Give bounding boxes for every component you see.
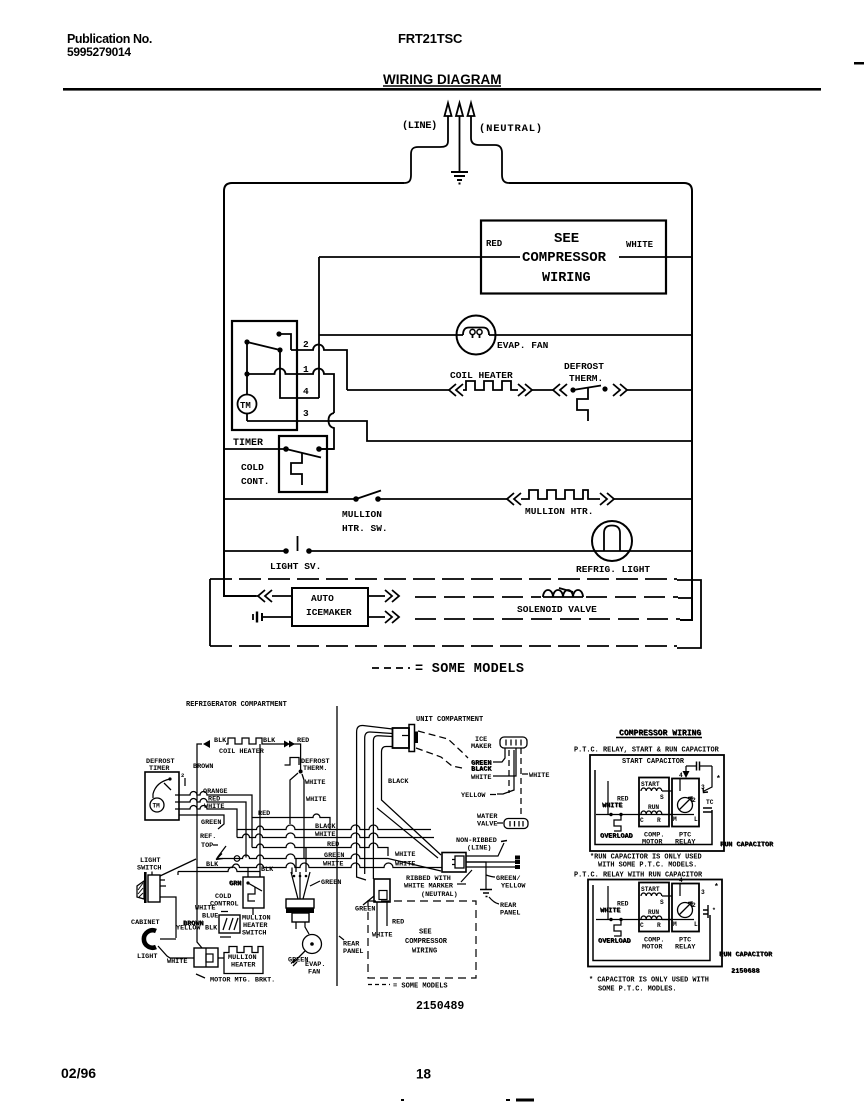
svg-text:WHITE: WHITE [323, 861, 343, 869]
mullion connector block [219, 915, 240, 933]
evap fan shroud funnel [291, 872, 310, 899]
svg-text:MAKER: MAKER [471, 743, 492, 751]
coil heater arrows [203, 740, 210, 748]
svg-text:WHITE: WHITE [471, 774, 491, 782]
svg-text:BLK: BLK [263, 737, 276, 745]
rear panel divider line [336, 706, 338, 986]
svg-text:2150688: 2150688 [732, 968, 761, 976]
svg-text:YELLOW: YELLOW [176, 925, 201, 933]
wires into funnel [292, 848, 306, 875]
svg-text:L: L [694, 816, 698, 823]
svg-text:5995279014: 5995279014 [67, 45, 131, 59]
svg-text:START: START [641, 886, 660, 893]
dashed return white [508, 750, 510, 793]
dashed harness to ice maker [418, 731, 468, 758]
svg-text:COMPRESSOR: COMPRESSOR [405, 938, 448, 946]
auto icemaker box [292, 588, 368, 626]
svg-text:TOP: TOP [201, 842, 213, 850]
mullion heater switch contacts [353, 496, 359, 502]
yellow wire [497, 750, 514, 794]
svg-text:Publication No.: Publication No. [67, 32, 152, 46]
svg-text:L: L [694, 921, 698, 928]
svg-text:= SOME MODELS: = SOME MODELS [393, 983, 448, 991]
compressor box: SEE COMPRESSOR WIRING [481, 221, 666, 294]
svg-text:SOLENOID VALVE: SOLENOID VALVE [517, 604, 597, 615]
coil heater right arrows [284, 741, 295, 748]
svg-text:RELAY: RELAY [675, 839, 696, 847]
svg-text:COLD: COLD [241, 462, 264, 473]
svg-text:3: 3 [303, 408, 309, 419]
svg-text:*: * [712, 907, 716, 914]
bus wire BLACK [237, 825, 431, 830]
svg-text:4: 4 [679, 877, 683, 884]
timer output wire white [179, 806, 237, 838]
bus wire RED [252, 843, 388, 856]
plug prong ground [456, 103, 463, 171]
timer box [232, 321, 297, 430]
svg-text:WIRING: WIRING [542, 271, 591, 286]
compressor leads [363, 896, 387, 938]
wire to neutral side [614, 498, 692, 500]
some-models arrows after therm [613, 384, 627, 396]
svg-text:MOTOR: MOTOR [642, 839, 663, 847]
cabinet outline box (main enclosure) [224, 183, 404, 596]
svg-text:C: C [640, 922, 644, 929]
some-models arrows [600, 493, 614, 505]
svg-text:S: S [660, 899, 664, 906]
ptc relay start cap box [590, 755, 724, 851]
icemaker fill connector [252, 614, 254, 620]
wire light row [224, 550, 286, 552]
mullion heater element [521, 490, 600, 499]
svg-text:YELLOW: YELLOW [461, 792, 486, 800]
inner margin [595, 770, 712, 845]
svg-text:WHITE: WHITE [204, 803, 224, 811]
svg-text:HTR. SW.: HTR. SW. [342, 523, 388, 534]
cold control box [279, 436, 327, 492]
svg-text:WHITE: WHITE [195, 905, 215, 913]
wire lamp white lead [158, 946, 194, 958]
see compressor wiring dashed box [368, 901, 476, 978]
svg-text:BLK: BLK [205, 925, 218, 933]
svg-text:CONT.: CONT. [241, 476, 270, 487]
svg-text:GRN: GRN [230, 880, 242, 888]
timer contact 2 (fixed) [276, 331, 281, 336]
svg-text:TIMER: TIMER [233, 438, 263, 449]
svg-text:OVERLOAD: OVERLOAD [601, 833, 634, 841]
unit compartment connector [393, 728, 410, 748]
wire hop over TM lead [319, 413, 334, 449]
evap fan motor [457, 316, 496, 355]
svg-text:COIL HEATER: COIL HEATER [450, 370, 513, 381]
wire switch top to white bus [177, 872, 179, 876]
icemaker row A out arrows [368, 590, 399, 602]
wire line side to cold control [224, 448, 286, 450]
wire to coil heater [347, 389, 449, 391]
legend some models (lower) [368, 984, 390, 986]
wire white 2 from therm [302, 774, 304, 859]
some-models arrows left of coil heater [449, 384, 463, 396]
svg-text:RUN: RUN [648, 909, 659, 916]
svg-text:RUN: RUN [648, 804, 659, 811]
wire row4: moving contact down to red feed [280, 350, 319, 398]
svg-text:FAN: FAN [308, 969, 320, 977]
some-models arrows [553, 384, 567, 396]
svg-text:VALVE: VALVE [477, 821, 497, 829]
svg-text:WHITE: WHITE [305, 779, 325, 787]
some-models arrows right of coil heater [518, 384, 532, 396]
svg-text:EVAP. FAN: EVAP. FAN [497, 340, 549, 351]
wire line side to icemaker [224, 595, 258, 597]
power cord connector [442, 853, 466, 873]
svg-text:WHITE: WHITE [315, 831, 335, 839]
svg-text:(LINE): (LINE) [467, 845, 491, 853]
svg-text:BLUE: BLUE [202, 913, 218, 921]
svg-text:P.T.C. RELAY WITH RUN CAPACITO: P.T.C. RELAY WITH RUN CAPACITOR [574, 872, 703, 880]
cap right lead [704, 766, 712, 791]
svg-text:SEE: SEE [554, 231, 579, 247]
svg-text:02/96: 02/96 [61, 1065, 96, 1081]
mullion heater element box [224, 947, 263, 974]
wire red to compressor box [319, 256, 520, 258]
wire evap fan row [319, 334, 463, 336]
dashed yellow drop [520, 748, 522, 818]
svg-text:WHITE: WHITE [372, 932, 392, 940]
wire to refrig light [309, 550, 692, 552]
wire: line prong S-curve into cabinet box top [404, 141, 448, 183]
svg-text:SOME P.T.C. MODLES.: SOME P.T.C. MODLES. [598, 986, 677, 994]
mullion heater plug [194, 948, 218, 967]
svg-text:R: R [657, 922, 661, 929]
ground symbol rear panel [480, 890, 492, 897]
svg-text:WHITE: WHITE [395, 861, 415, 869]
timer moving contact [277, 347, 282, 352]
wire BROWN vertical [197, 744, 202, 870]
defrost therm capillary [577, 388, 588, 421]
ice maker connector [500, 737, 527, 748]
svg-text:WHITE: WHITE [306, 796, 326, 804]
svg-text:RELAY: RELAY [675, 944, 696, 952]
svg-text:2: 2 [692, 797, 696, 804]
light switch contacts [283, 548, 289, 554]
svg-text:DEFROST: DEFROST [564, 361, 604, 372]
bus wire BLK lower [178, 867, 260, 872]
dashed wire solenoid to neutral [586, 596, 678, 598]
white vertical [607, 781, 609, 815]
svg-text:GREEN: GREEN [321, 879, 341, 887]
svg-text:WHITE MARKER: WHITE MARKER [404, 883, 454, 891]
black drop from connector [382, 747, 442, 856]
wire cold control bottom [252, 908, 254, 915]
timer arm pivot [244, 339, 249, 344]
run capacitor stub [703, 808, 712, 812]
wire to defrost therm [532, 389, 553, 391]
icemaker row B out arrows [368, 611, 399, 623]
coil heater element (lower) [226, 738, 276, 744]
svg-text:BLACK: BLACK [388, 778, 409, 786]
cold control contacts [283, 446, 289, 452]
wire plug to heater [218, 957, 224, 959]
light switch pins [160, 880, 176, 938]
svg-text:BLK: BLK [261, 866, 274, 874]
plug prong NEUTRAL [468, 103, 475, 138]
svg-text:LIGHT: LIGHT [137, 953, 157, 961]
svg-text:COMPRESSOR: COMPRESSOR [522, 250, 607, 266]
svg-text:RED: RED [392, 919, 404, 927]
svg-text:BROWN: BROWN [193, 763, 213, 771]
wire therm to neutral side [627, 389, 692, 391]
svg-text:4: 4 [679, 772, 683, 779]
wire red branch to black bus [252, 814, 330, 829]
refrig light bulb [592, 521, 632, 561]
ptc relay run cap box [588, 880, 722, 967]
wire blk drop to cold control [259, 744, 261, 877]
svg-text:RED: RED [486, 239, 503, 249]
TM lead down [246, 414, 248, 422]
svg-text:THERM.: THERM. [303, 765, 327, 773]
svg-text:3: 3 [701, 784, 705, 791]
svg-text:START CAPACITOR: START CAPACITOR [622, 758, 685, 766]
svg-text:WHITE: WHITE [601, 907, 621, 915]
svg-text:LIGHT SV.: LIGHT SV. [270, 561, 321, 572]
svg-text:PANEL: PANEL [343, 948, 363, 956]
svg-text:FRT21TSC: FRT21TSC [398, 31, 463, 46]
svg-text:WIRING: WIRING [412, 948, 437, 956]
ground symbol [451, 171, 468, 173]
svg-text:WHITE: WHITE [626, 240, 654, 250]
svg-text:S: S [660, 794, 664, 801]
dashed wire row B to neutral foot [415, 618, 680, 620]
cord line wire [466, 843, 504, 856]
wire brown drop to heater plug [197, 870, 202, 949]
svg-text:START: START [641, 781, 660, 788]
cord wires with terminals [466, 861, 515, 863]
defrost timer cam arm [168, 777, 171, 780]
svg-text:RUN CAPACITOR: RUN CAPACITOR [721, 841, 775, 849]
svg-text:GREEN: GREEN [201, 819, 221, 827]
svg-text:M: M [673, 921, 677, 928]
header rule [63, 88, 821, 91]
bottom scan marks [401, 1099, 404, 1101]
solenoid valve coil [543, 590, 583, 597]
svg-text:2: 2 [181, 772, 184, 779]
svg-text:WHITE: WHITE [529, 772, 549, 780]
timer pivot to motor wire [246, 342, 248, 395]
svg-text:2150489: 2150489 [416, 1000, 464, 1013]
svg-text:(LINE): (LINE) [402, 120, 437, 132]
ptc relay box [672, 779, 699, 827]
wires cold control top [248, 868, 260, 878]
start winding jumper [662, 779, 680, 815]
timer pin ticks [175, 795, 179, 809]
svg-text:SEE: SEE [419, 929, 432, 937]
svg-text:OVERLOAD: OVERLOAD [599, 938, 632, 946]
defrost timer motor TM [150, 798, 164, 812]
svg-text:3: 3 [701, 889, 705, 896]
wire row3: TM to neutral side [247, 421, 692, 441]
motor leads [296, 922, 309, 934]
some-models arrows [507, 493, 521, 505]
svg-text:WHITE: WHITE [603, 802, 623, 810]
legend dashed sample [372, 667, 410, 669]
comp motor box [639, 778, 669, 827]
svg-text:THERM.: THERM. [569, 373, 603, 384]
run capacitor symbol 2 [703, 905, 708, 918]
green yellow ground wire [466, 862, 486, 889]
svg-text:C: C [640, 817, 644, 824]
svg-text:WITH SOME P.T.C. MODELS.: WITH SOME P.T.C. MODELS. [598, 862, 697, 870]
svg-text:TM: TM [240, 401, 251, 411]
timer output wire red [179, 799, 246, 858]
svg-text:GREEN: GREEN [324, 852, 344, 860]
neutral leader diagonal [461, 870, 472, 882]
svg-text:RED: RED [258, 810, 270, 818]
timer green wire [179, 815, 224, 829]
inline connector bubble [234, 856, 240, 862]
bus wire GREEN [218, 854, 441, 871]
coil heater element [463, 381, 518, 390]
svg-text:PANEL: PANEL [500, 910, 520, 918]
svg-text:WHITE: WHITE [167, 958, 187, 966]
svg-text:REFRIGERATOR COMPARTMENT: REFRIGERATOR COMPARTMENT [186, 701, 287, 709]
bus wire WHITE [237, 833, 434, 838]
svg-text:GREEN: GREEN [355, 906, 375, 914]
svg-text:TC: TC [706, 799, 714, 806]
svg-text:HEATER: HEATER [231, 962, 256, 970]
wire: neutral prong S-curve into cabinet box top [471, 138, 509, 183]
svg-text:R: R [657, 817, 661, 824]
svg-text:BLACK: BLACK [315, 823, 336, 831]
svg-text:* CAPACITOR IS ONLY USED WITH: * CAPACITOR IS ONLY USED WITH [589, 977, 709, 985]
plug prong LINE [445, 103, 452, 141]
svg-text:P.T.C. RELAY, START & RUN CAPA: P.T.C. RELAY, START & RUN CAPACITOR [574, 747, 720, 755]
cold control bellows [291, 454, 302, 486]
svg-text:= SOME MODELS: = SOME MODELS [415, 662, 524, 677]
cabinet light lamp [144, 930, 156, 947]
harness diagonals to power cord [377, 808, 438, 858]
svg-text:ICEMAKER: ICEMAKER [306, 607, 352, 618]
svg-text:YELLOW: YELLOW [501, 883, 526, 891]
svg-text:(NEUTRAL): (NEUTRAL) [421, 891, 458, 899]
ice maker wires [493, 748, 505, 762]
wire red run to unit compartment [276, 744, 301, 770]
corner artifact [854, 62, 864, 65]
wire to mullion heater [378, 498, 507, 500]
some-models arrows [258, 590, 272, 602]
compressor connector [374, 879, 390, 902]
wire switch to bus [160, 859, 196, 876]
cold control box (lower) [243, 877, 264, 908]
light switch body [148, 875, 160, 902]
svg-text:COIL HEATER: COIL HEATER [219, 748, 265, 756]
defrost therm contacts [570, 387, 575, 392]
svg-text:2: 2 [303, 339, 309, 350]
svg-text:MULLION HTR.: MULLION HTR. [525, 506, 593, 517]
cap left lead with arrow [685, 766, 687, 772]
start capacitor symbol [686, 765, 712, 767]
wire cold control to timer feed [319, 448, 334, 450]
overload [614, 815, 621, 832]
defrost timer box [145, 772, 179, 820]
defrost therm (lower) [285, 758, 300, 766]
timer output wire orange [179, 792, 252, 848]
svg-text:RUN CAPACITOR: RUN CAPACITOR [720, 951, 774, 959]
evap fan motor circle [303, 935, 322, 954]
wire mullion row [224, 498, 356, 500]
water valve connector [504, 819, 528, 829]
bus wire WHITE 2 [197, 863, 442, 867]
svg-text:4: 4 [303, 386, 309, 397]
evap fan motor body [286, 899, 314, 908]
svg-text:WHITE: WHITE [395, 851, 415, 859]
ptc relay box 2 [672, 884, 699, 932]
svg-text:CABINET: CABINET [131, 919, 160, 927]
wire row2: contact2 to coil heater drop [291, 345, 347, 391]
wire white 1 from therm [290, 773, 298, 824]
svg-text:REFRIG. LIGHT: REFRIG. LIGHT [576, 564, 650, 575]
timer motor TM [238, 395, 257, 414]
wire row1: pivot out of timer [247, 369, 334, 414]
svg-text:*: * [716, 775, 721, 784]
svg-text:SWITCH: SWITCH [137, 865, 161, 873]
svg-text:BLACK: BLACK [472, 766, 493, 774]
wire lamp to switch drop [160, 938, 176, 940]
timer switch arm [247, 342, 280, 350]
svg-text:M: M [673, 816, 677, 823]
light switch bracket hatch [137, 881, 144, 899]
dashed wire to solenoid valve [415, 596, 541, 598]
svg-text:AUTO: AUTO [311, 593, 334, 604]
svg-text:*RUN CAPACITOR IS ONLY USED: *RUN CAPACITOR IS ONLY USED [590, 854, 702, 862]
wire white from compressor box to neutral side [619, 256, 692, 258]
svg-text:BLK: BLK [206, 861, 219, 869]
svg-text:TM: TM [153, 803, 161, 810]
svg-text:18: 18 [416, 1067, 432, 1082]
svg-text:SWITCH: SWITCH [242, 930, 266, 938]
svg-text:UNIT COMPARTMENT: UNIT COMPARTMENT [416, 716, 483, 724]
harness wires into connector from left [357, 725, 393, 880]
svg-text:BLK: BLK [214, 737, 227, 745]
svg-text:REF.: REF. [200, 833, 216, 841]
svg-text:MOTOR: MOTOR [642, 944, 663, 952]
svg-text:(NEUTRAL): (NEUTRAL) [479, 123, 543, 135]
svg-text:MOTOR MTG. BRKT.: MOTOR MTG. BRKT. [210, 977, 275, 985]
green lead with ticks [291, 951, 305, 966]
wire vertical red feed [318, 257, 320, 398]
light switch plunger [297, 536, 299, 551]
comp motor box 2 [639, 883, 669, 932]
main spine wire [596, 814, 694, 816]
svg-text:WIRING DIAGRAM: WIRING DIAGRAM [383, 72, 502, 87]
svg-text:*: * [714, 883, 719, 892]
ptc disc [678, 798, 693, 813]
some-models dashed enclosure [210, 578, 677, 580]
svg-text:2: 2 [692, 902, 696, 909]
svg-text:MULLION: MULLION [342, 509, 382, 520]
